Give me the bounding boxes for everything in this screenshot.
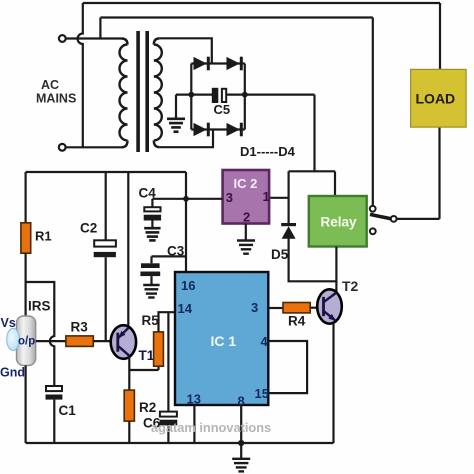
wire inner vertical to top AC terminal	[99, 18, 101, 39]
wire C2 top lead	[105, 172, 107, 240]
svg-text:Vs: Vs	[1, 316, 16, 330]
wire switch feed	[372, 18, 374, 206]
svg-text:agatam innovations: agatam innovations	[151, 420, 271, 435]
capacitor C4	[144, 199, 161, 228]
wire main ground stem	[240, 443, 242, 458]
wire R3 to T1 base	[93, 340, 117, 342]
svg-text:T2: T2	[342, 278, 359, 294]
svg-text:D1-----D4: D1-----D4	[240, 144, 296, 159]
wire pin3 to R4	[268, 307, 283, 309]
svg-text:Gnd: Gnd	[0, 366, 25, 380]
bridge rectifier frame	[191, 64, 245, 130]
junction ground rail node	[238, 440, 244, 446]
svg-text:C4: C4	[139, 186, 157, 201]
wire IC2 pin1 lead	[269, 197, 289, 199]
junction C4 node	[183, 196, 189, 202]
wire inner top line	[100, 16, 372, 18]
wire R1 top lead	[25, 172, 27, 223]
junction bridge right	[242, 92, 248, 98]
capacitor C6	[160, 412, 178, 443]
relay K1	[309, 196, 367, 247]
svg-text:C1: C1	[59, 403, 77, 418]
svg-text:R2: R2	[139, 400, 156, 415]
transformer TR1 secondary winding	[154, 38, 162, 147]
AC terminal top	[59, 35, 122, 42]
ground IC2	[237, 241, 255, 254]
capacitor C3	[140, 256, 160, 284]
transformer core	[136, 31, 149, 152]
svg-text:C2: C2	[80, 221, 97, 236]
junction bridge left	[188, 92, 194, 98]
wire bottom ground rail	[26, 442, 334, 444]
svg-text:o/p: o/p	[18, 336, 35, 348]
wire relay bottom to T2 collector	[335, 247, 337, 293]
resistor R2	[124, 390, 134, 421]
wire relay supply node	[289, 170, 335, 172]
resistor R3	[66, 336, 93, 347]
ground C4	[144, 228, 160, 240]
wire D5 branch lower	[289, 238, 337, 281]
svg-text:1: 1	[263, 189, 270, 204]
svg-text:Relay: Relay	[321, 215, 358, 230]
svg-text:13: 13	[187, 392, 201, 407]
wire bridge center rail	[176, 93, 315, 95]
wire load top drop	[439, 3, 441, 69]
wire C6 branch	[167, 312, 169, 411]
wire left outer vertical with hop over AC wire	[78, 3, 83, 147]
diode D5	[281, 223, 296, 239]
wire T1 emitter to rail	[127, 172, 129, 327]
wire collector node horizontal	[129, 369, 158, 371]
wire R2 bottom lead	[128, 421, 130, 443]
wire IC2 pin2 stem	[245, 224, 247, 240]
wire load bottom drop	[438, 127, 440, 219]
wire sensor gnd drop	[25, 365, 27, 443]
svg-text:LOAD: LOAD	[416, 91, 456, 107]
wire R4 to T2 base	[310, 307, 318, 309]
wire D5 branch upper	[288, 171, 290, 223]
load	[411, 69, 467, 127]
IC U2	[223, 170, 270, 225]
resistor R5	[154, 332, 164, 366]
svg-text:AC: AC	[41, 78, 59, 92]
AC terminal bottom	[59, 144, 122, 151]
svg-text:14: 14	[178, 301, 193, 316]
wire DC plus drop	[313, 95, 315, 172]
svg-text:R3: R3	[71, 320, 89, 335]
wire T1 collector down	[128, 357, 130, 370]
IR sensor lens	[7, 328, 20, 350]
svg-text:IC 1: IC 1	[211, 333, 237, 349]
svg-text:15: 15	[255, 386, 269, 401]
wire pin16 riser	[185, 172, 187, 272]
diode D2	[227, 57, 243, 71]
svg-text:R4: R4	[288, 314, 306, 329]
svg-text:C5: C5	[214, 102, 231, 117]
svg-text:IRS: IRS	[28, 299, 51, 314]
capacitor C1	[46, 386, 63, 443]
wire regulated rail	[26, 171, 186, 173]
diode D4	[227, 123, 243, 137]
svg-text:R5: R5	[142, 313, 160, 328]
wire C3 feed	[152, 255, 187, 257]
svg-text:16: 16	[181, 278, 195, 293]
capacitor C5	[212, 88, 226, 103]
switch arm	[370, 214, 391, 218]
transformer TR1 primary winding	[120, 39, 128, 148]
wire pin14 jog to R5	[159, 312, 176, 332]
wire relay feed drop	[334, 171, 336, 196]
wire C4 feed	[152, 198, 222, 200]
diode D3	[194, 123, 210, 137]
svg-text:D5: D5	[271, 247, 289, 262]
svg-text:3: 3	[251, 300, 258, 315]
wire outer top line	[83, 2, 440, 4]
capacitor C2	[94, 240, 116, 341]
switch contact NO	[370, 206, 376, 212]
transistor T1	[111, 325, 136, 359]
wire branch to C1 with hop	[26, 282, 55, 386]
resistor R4	[283, 303, 310, 313]
svg-text:2: 2	[243, 210, 250, 225]
switch common contact	[391, 216, 397, 222]
wire sensor output	[36, 340, 66, 342]
svg-text:T1: T1	[139, 348, 155, 363]
label AC MAINS	[36, 78, 76, 106]
switch contact NC	[370, 228, 376, 234]
svg-text:4: 4	[261, 334, 269, 349]
wire T2 emitter drop	[332, 323, 334, 443]
wire secondary top lead	[160, 38, 212, 63]
wire secondary bottom lead	[160, 130, 213, 148]
wire R1 to sensor	[25, 253, 27, 316]
svg-text:IC 2: IC 2	[234, 176, 258, 191]
svg-text:C3: C3	[167, 244, 185, 259]
wire pin8 drop	[240, 405, 242, 443]
IR sensor body	[17, 316, 36, 365]
ground transformer center	[167, 95, 185, 132]
transistor T2	[317, 289, 342, 323]
IC U1	[175, 272, 269, 408]
ground main	[232, 459, 250, 472]
wire R5 bottom stub	[157, 366, 159, 370]
wire switch to load	[397, 218, 440, 220]
svg-text:3: 3	[226, 190, 233, 205]
diode D1	[194, 57, 210, 71]
wire pin4 pin15 loop	[268, 341, 307, 393]
svg-text:R1: R1	[35, 229, 52, 244]
wire R2 top lead	[128, 370, 130, 390]
svg-text:MAINS: MAINS	[36, 92, 76, 106]
wire pin13 drop	[193, 405, 195, 443]
ground C3	[143, 285, 159, 298]
resistor R1	[21, 223, 31, 253]
